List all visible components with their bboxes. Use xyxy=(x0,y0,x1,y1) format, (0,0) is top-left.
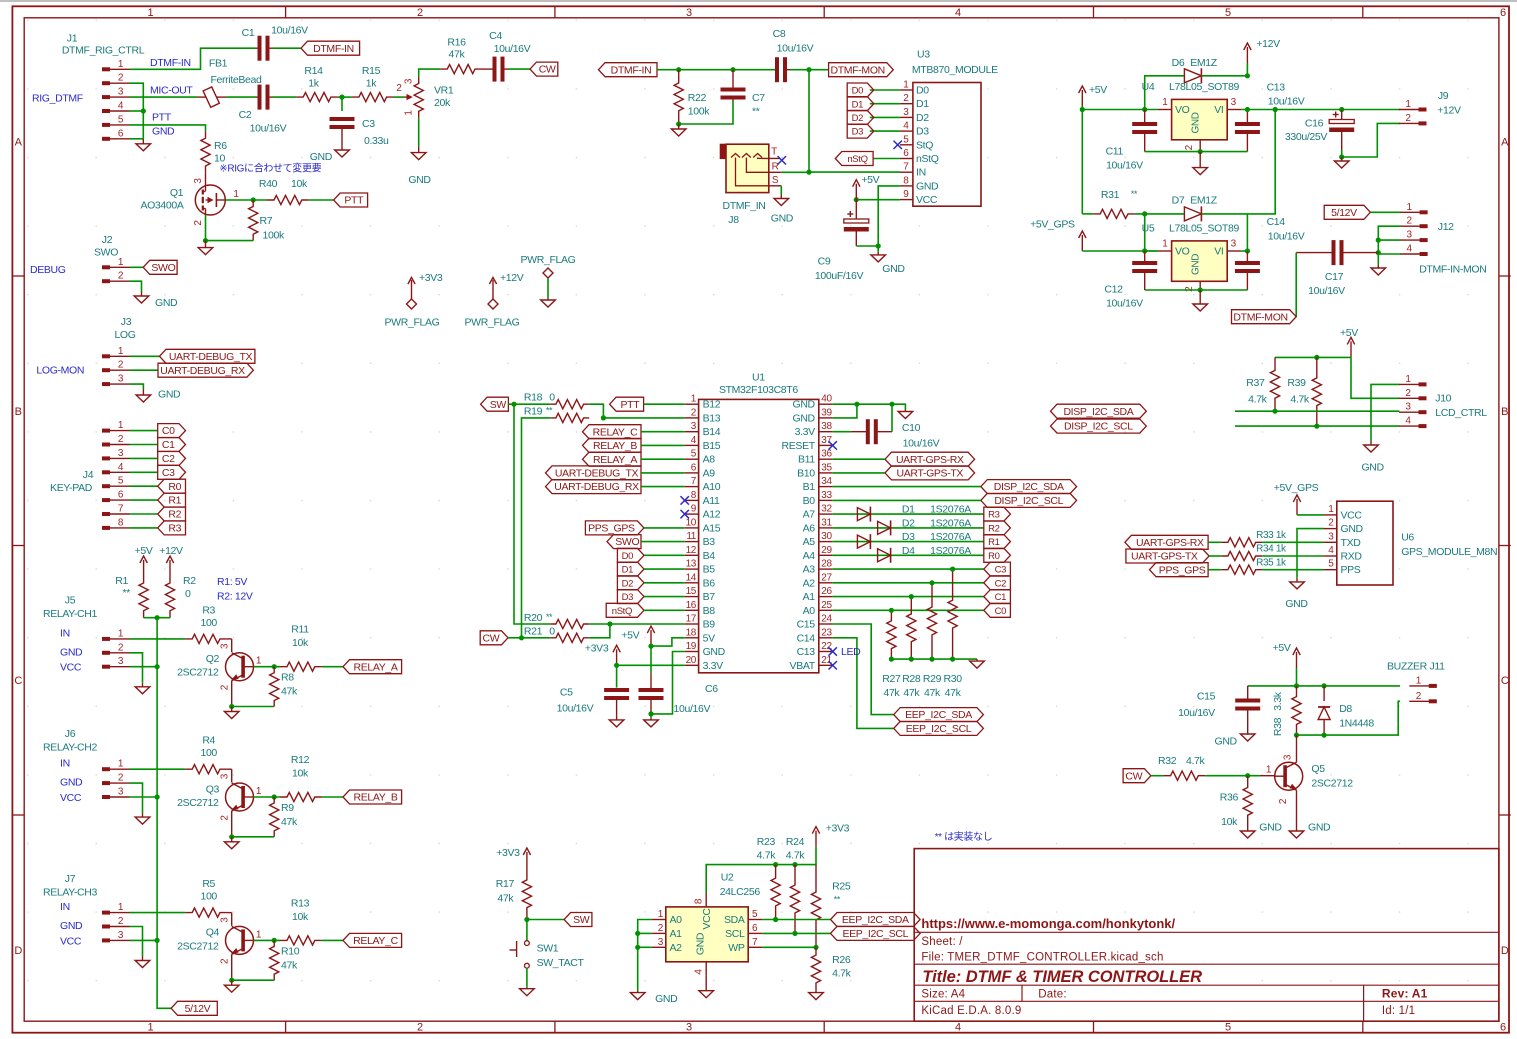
svg-text:2SC2712: 2SC2712 xyxy=(177,667,219,679)
svg-text:C15: C15 xyxy=(797,619,816,631)
wire xyxy=(130,48,256,69)
global label PTT xyxy=(334,193,368,207)
junction xyxy=(648,711,653,716)
svg-text:EEP_I2C_SDA: EEP_I2C_SDA xyxy=(842,914,909,926)
junction xyxy=(1142,107,1147,112)
junction xyxy=(676,67,681,72)
diode D8 1N4448 xyxy=(1318,686,1374,735)
svg-text:3: 3 xyxy=(220,643,231,649)
svg-text:DTMF_IN: DTMF_IN xyxy=(722,200,765,212)
svg-text:8: 8 xyxy=(903,175,909,186)
wire xyxy=(1246,214,1248,251)
svg-text:Size: A4: Size: A4 xyxy=(921,989,965,1001)
resistor R35 xyxy=(1221,557,1287,574)
wire xyxy=(514,404,550,624)
capacitor C1 xyxy=(242,25,309,61)
diode D7 EM1Z xyxy=(1172,195,1218,222)
connector J6 RELAY-CH2 xyxy=(43,728,130,799)
svg-text:+5V: +5V xyxy=(1089,84,1107,96)
svg-text:2: 2 xyxy=(1406,216,1412,227)
svg-text:IN: IN xyxy=(916,167,926,179)
wire xyxy=(206,215,254,241)
svg-text:A7: A7 xyxy=(803,509,816,521)
wire xyxy=(641,444,685,446)
svg-text:Sheet: /: Sheet: / xyxy=(921,936,963,948)
svg-text:R22: R22 xyxy=(688,92,707,104)
svg-text:B: B xyxy=(15,406,22,418)
global label UART-GPS-RX xyxy=(1125,535,1208,549)
svg-text:Date:: Date: xyxy=(1038,989,1067,1001)
global label RELAY_B xyxy=(583,438,642,452)
svg-text:GND: GND xyxy=(310,151,333,163)
svg-text:0: 0 xyxy=(185,588,191,600)
global label PPS_GPS xyxy=(585,521,644,535)
wire xyxy=(130,939,158,941)
svg-text:R38: R38 xyxy=(1272,717,1284,736)
svg-text:R23: R23 xyxy=(757,836,776,848)
svg-text:1N4448: 1N4448 xyxy=(1339,717,1374,729)
connector J1 DTMF_RIG_CTRL xyxy=(62,33,145,141)
svg-text:+12V: +12V xyxy=(500,272,524,284)
global label EEP_I2C_SDA xyxy=(831,913,921,927)
wire xyxy=(644,554,685,556)
svg-text:RXD: RXD xyxy=(1341,551,1363,563)
junction xyxy=(155,615,160,620)
resistor R29 xyxy=(923,583,942,699)
svg-text:VO: VO xyxy=(1175,246,1190,258)
wire GND pin8 xyxy=(878,186,900,252)
junction xyxy=(251,197,256,202)
svg-text:1: 1 xyxy=(118,59,124,70)
svg-text:GND: GND xyxy=(1191,112,1202,133)
wire xyxy=(641,431,685,433)
svg-text:4: 4 xyxy=(955,7,961,19)
svg-text:IN: IN xyxy=(60,758,70,770)
resistor R20 xyxy=(524,612,589,629)
global label C3 xyxy=(158,465,186,479)
svg-text:UART-DEBUG_RX: UART-DEBUG_RX xyxy=(160,365,245,377)
ferrite bead FB1 xyxy=(197,58,262,108)
power +5V xyxy=(1340,327,1358,357)
svg-text:11: 11 xyxy=(686,531,696,542)
ground xyxy=(1240,827,1255,838)
global label RELAY_C xyxy=(583,425,642,439)
global label RELAY_B xyxy=(343,790,402,804)
junction xyxy=(519,635,524,640)
ground xyxy=(1193,290,1208,311)
pwr_flag on GND xyxy=(521,254,576,307)
svg-text:GND: GND xyxy=(408,174,431,186)
wire xyxy=(130,266,144,268)
svg-text:C10: C10 xyxy=(902,422,921,434)
svg-text:A1: A1 xyxy=(670,928,683,940)
global label SWO xyxy=(143,260,177,274)
wire xyxy=(891,658,977,660)
global label SW xyxy=(564,913,592,927)
svg-text:34: 34 xyxy=(821,476,832,487)
svg-text:DEBUG: DEBUG xyxy=(30,264,66,276)
wire xyxy=(1145,151,1248,153)
svg-text:3: 3 xyxy=(1231,97,1237,108)
connector J11 BUZZER xyxy=(1387,661,1445,704)
wire xyxy=(130,444,158,446)
junction xyxy=(889,402,894,407)
junction xyxy=(773,917,778,922)
wire xyxy=(1082,250,1157,252)
svg-text:1: 1 xyxy=(1162,239,1168,250)
power +12V xyxy=(159,545,183,576)
svg-text:SDA: SDA xyxy=(724,914,745,926)
svg-text:9: 9 xyxy=(691,504,697,515)
svg-text:RELAY-CH1: RELAY-CH1 xyxy=(43,608,98,620)
svg-text:B5: B5 xyxy=(703,564,716,576)
svg-text:30: 30 xyxy=(821,531,832,542)
wire xyxy=(1235,410,1400,412)
svg-text:R40: R40 xyxy=(259,178,278,190)
svg-text:CW: CW xyxy=(483,632,500,644)
svg-text:5: 5 xyxy=(752,909,758,920)
connector J2 SWO xyxy=(94,234,130,283)
capacitor C17 xyxy=(1296,240,1378,297)
svg-text:D8: D8 xyxy=(1339,703,1352,715)
svg-text:GND: GND xyxy=(1191,254,1202,275)
resistor R11 xyxy=(280,624,322,672)
wire xyxy=(1082,213,1093,215)
wire xyxy=(418,118,420,146)
resistor R17 xyxy=(496,868,532,920)
resistor R38 xyxy=(1272,686,1301,736)
svg-text:+3V3: +3V3 xyxy=(496,847,520,859)
svg-text:5: 5 xyxy=(1225,1022,1231,1034)
resistor R22 xyxy=(674,70,710,124)
svg-text:R15: R15 xyxy=(362,65,381,77)
junction xyxy=(889,608,894,613)
resistor R31 xyxy=(1093,189,1138,219)
svg-text:R36: R36 xyxy=(1220,792,1239,804)
svg-text:RELAY_C: RELAY_C xyxy=(353,935,398,947)
svg-text:R3: R3 xyxy=(988,510,1000,521)
svg-text:3: 3 xyxy=(118,87,124,98)
svg-text:J12: J12 xyxy=(1438,221,1454,233)
svg-text:J6: J6 xyxy=(65,728,76,740)
global label R2 xyxy=(984,521,1011,535)
svg-text:D3: D3 xyxy=(916,126,929,138)
svg-text:RELAY_A: RELAY_A xyxy=(593,454,637,466)
svg-text:5: 5 xyxy=(903,134,909,145)
svg-text:3: 3 xyxy=(1406,230,1412,241)
wire xyxy=(130,281,142,292)
resistor R15 xyxy=(352,65,394,102)
svg-text:LED: LED xyxy=(841,646,861,658)
svg-text:6: 6 xyxy=(1500,1022,1506,1034)
svg-text:FerriteBead: FerriteBead xyxy=(210,74,262,86)
svg-text:100k: 100k xyxy=(688,106,710,118)
svg-text:100: 100 xyxy=(200,891,217,903)
resistor R32 xyxy=(1158,755,1206,780)
svg-text:PPS_GPS: PPS_GPS xyxy=(588,523,635,535)
svg-text:GND: GND xyxy=(60,646,83,658)
capacitor C9 polarized xyxy=(815,200,869,282)
capacitor C13 xyxy=(1235,81,1305,151)
ground xyxy=(1290,578,1305,589)
svg-text:5: 5 xyxy=(691,449,697,460)
wire xyxy=(508,68,530,70)
wire xyxy=(856,245,878,247)
ground xyxy=(809,991,824,1000)
junction xyxy=(648,644,653,649)
wire xyxy=(273,96,296,98)
svg-text:5: 5 xyxy=(1328,559,1334,570)
svg-text:R19: R19 xyxy=(524,405,543,417)
junction xyxy=(524,917,529,922)
junction xyxy=(155,938,160,943)
svg-text:3.3V: 3.3V xyxy=(703,660,724,672)
wire xyxy=(1209,555,1221,557)
svg-text:1S2076A: 1S2076A xyxy=(930,545,971,557)
svg-text:15: 15 xyxy=(686,586,697,597)
wire xyxy=(130,768,186,770)
ground xyxy=(135,957,150,968)
junction xyxy=(601,415,606,420)
power +3V3 flag xyxy=(385,272,443,328)
svg-text:39: 39 xyxy=(821,407,832,418)
svg-text:SW_TACT: SW_TACT xyxy=(537,957,585,969)
wire xyxy=(1201,110,1275,214)
svg-text:Q5: Q5 xyxy=(1311,763,1325,775)
svg-text:R18: R18 xyxy=(524,392,543,404)
global label R3 xyxy=(984,507,1011,521)
svg-text:R33 1k: R33 1k xyxy=(1256,530,1287,541)
capacitor C4 xyxy=(482,30,531,82)
resistor R33 xyxy=(1221,530,1287,547)
junction xyxy=(229,978,234,983)
wire xyxy=(790,69,829,71)
svg-text:PTT: PTT xyxy=(152,112,172,124)
svg-text:R20: R20 xyxy=(524,612,543,624)
svg-text:3: 3 xyxy=(118,448,124,459)
svg-text:GND: GND xyxy=(1341,523,1364,535)
global label PPS_GPS xyxy=(1150,563,1209,577)
junction xyxy=(1294,733,1299,738)
svg-text:3: 3 xyxy=(686,7,692,19)
wire xyxy=(641,458,685,460)
svg-text:DTMF-MON: DTMF-MON xyxy=(1233,311,1287,323)
svg-text:R1: R1 xyxy=(168,495,181,507)
svg-text:C14: C14 xyxy=(797,632,816,644)
svg-text:1: 1 xyxy=(118,902,124,913)
global label DISP_I2C_SDA xyxy=(1051,404,1147,418)
connector J12 xyxy=(1400,202,1486,275)
svg-text:6: 6 xyxy=(118,128,124,139)
global label UART-DEBUG_TX xyxy=(546,466,642,480)
svg-text:1: 1 xyxy=(1406,202,1412,213)
svg-text:100: 100 xyxy=(200,617,217,629)
svg-text:MTB870_MODULE: MTB870_MODULE xyxy=(912,64,998,76)
wire xyxy=(1235,425,1400,427)
global label D2 xyxy=(617,576,644,590)
svg-text:EM1Z: EM1Z xyxy=(1190,57,1218,69)
svg-text:5: 5 xyxy=(1225,7,1231,19)
svg-text:C2: C2 xyxy=(995,578,1007,589)
svg-text:B15: B15 xyxy=(703,440,721,452)
svg-text:6: 6 xyxy=(691,462,697,473)
svg-text:C0: C0 xyxy=(162,425,175,437)
ground xyxy=(224,707,239,719)
svg-text:D7: D7 xyxy=(1172,195,1185,207)
svg-text:10u/16V: 10u/16V xyxy=(1268,96,1305,108)
svg-text:BUZZER J11: BUZZER J11 xyxy=(1387,661,1445,673)
svg-text:C17: C17 xyxy=(1325,271,1344,283)
no-connect VBAT xyxy=(829,661,837,669)
svg-text:SW: SW xyxy=(490,399,507,411)
svg-text:D1: D1 xyxy=(902,504,915,516)
svg-text:FB1: FB1 xyxy=(209,58,228,70)
svg-text:R17: R17 xyxy=(496,878,515,890)
svg-text:SW1: SW1 xyxy=(537,943,559,955)
svg-text:D1: D1 xyxy=(852,99,864,110)
svg-text:1S2076A: 1S2076A xyxy=(930,517,971,529)
junction xyxy=(676,121,681,126)
svg-text:10k: 10k xyxy=(291,178,308,190)
svg-text:4: 4 xyxy=(1406,244,1412,255)
global label R3 xyxy=(158,521,186,535)
wire IN xyxy=(856,199,900,201)
svg-text:** は実装なし: ** は実装なし xyxy=(935,830,993,843)
power +5V_GPS xyxy=(1030,219,1086,252)
svg-text:R37: R37 xyxy=(1246,377,1265,389)
svg-text:7: 7 xyxy=(118,504,124,515)
svg-text:**: ** xyxy=(752,106,760,118)
svg-text:5/12V: 5/12V xyxy=(185,1003,211,1015)
svg-text:Q4: Q4 xyxy=(206,927,220,939)
junction xyxy=(229,834,234,839)
svg-text:6: 6 xyxy=(118,490,124,501)
wire xyxy=(644,609,685,611)
svg-text:GND: GND xyxy=(1285,598,1308,610)
svg-text:SWO: SWO xyxy=(151,262,175,274)
svg-text:C2: C2 xyxy=(239,109,252,121)
wire xyxy=(833,404,857,418)
global label EEP_I2C_SDA xyxy=(894,708,984,722)
svg-text:VI: VI xyxy=(1214,104,1223,116)
junction xyxy=(272,664,277,669)
wire xyxy=(870,130,900,132)
svg-text:StQ: StQ xyxy=(916,139,933,151)
svg-text:U4: U4 xyxy=(1142,81,1155,93)
wire xyxy=(833,404,906,409)
wire xyxy=(522,418,551,638)
svg-text:GND: GND xyxy=(1259,822,1282,834)
svg-text:R9: R9 xyxy=(281,802,294,814)
svg-text:GND: GND xyxy=(1361,462,1384,474)
capacitor C6 xyxy=(639,673,719,715)
wire xyxy=(650,646,652,673)
svg-text:10u/16V: 10u/16V xyxy=(1178,707,1215,719)
wire xyxy=(1248,685,1400,687)
wire xyxy=(1297,514,1324,516)
junction xyxy=(909,657,914,662)
svg-text:A4: A4 xyxy=(803,550,816,562)
global label D3 xyxy=(617,590,644,604)
transistor Q3 2SC2712 xyxy=(177,773,262,836)
connector J7 RELAY-CH3 xyxy=(43,873,130,942)
wire xyxy=(322,939,343,941)
svg-text:+3V3: +3V3 xyxy=(585,643,609,655)
svg-text:C14: C14 xyxy=(1267,216,1286,228)
svg-text:1: 1 xyxy=(233,189,239,200)
wire xyxy=(130,384,144,389)
ground xyxy=(1193,152,1208,175)
svg-text:2: 2 xyxy=(1184,144,1195,150)
resistor R1 xyxy=(115,575,148,618)
wire xyxy=(1201,63,1247,76)
junction xyxy=(889,657,894,662)
svg-text:31: 31 xyxy=(821,517,832,528)
svg-text:35: 35 xyxy=(821,462,832,473)
ground xyxy=(871,252,886,262)
svg-text:SWO: SWO xyxy=(615,536,639,548)
power +5V xyxy=(135,545,153,576)
svg-text:C15: C15 xyxy=(1197,691,1216,703)
wire xyxy=(130,355,160,357)
svg-text:R30: R30 xyxy=(943,673,962,685)
svg-text:RELAY_C: RELAY_C xyxy=(593,426,638,438)
svg-text:A9: A9 xyxy=(703,467,716,479)
wire xyxy=(833,527,984,529)
svg-text:EEP_I2C_SCL: EEP_I2C_SCL xyxy=(906,723,972,735)
svg-text:4: 4 xyxy=(955,1022,961,1034)
junction xyxy=(1245,73,1250,78)
connector J5 RELAY-CH1 xyxy=(43,595,130,669)
wire xyxy=(644,527,685,529)
svg-text:C11: C11 xyxy=(1106,145,1124,157)
wire xyxy=(644,596,685,598)
svg-text:C12: C12 xyxy=(1104,284,1123,296)
capacitor C11 xyxy=(1106,110,1158,172)
svg-text:18: 18 xyxy=(686,627,697,638)
svg-text:6: 6 xyxy=(903,148,909,159)
svg-text:47k: 47k xyxy=(281,816,298,828)
global label UART-GPS-TX xyxy=(885,466,975,480)
svg-text:B: B xyxy=(1501,406,1508,418)
svg-text:2SC2712: 2SC2712 xyxy=(177,940,219,952)
wire xyxy=(833,486,981,488)
svg-text:MIC-OUT: MIC-OUT xyxy=(150,85,193,97)
svg-text:2: 2 xyxy=(118,773,124,784)
wire xyxy=(651,652,685,714)
svg-text:1: 1 xyxy=(1162,97,1168,108)
svg-text:+5V: +5V xyxy=(861,174,879,186)
wire xyxy=(833,541,984,543)
svg-text:C4: C4 xyxy=(489,30,502,42)
power +5V xyxy=(1079,84,1108,106)
resistor R3 xyxy=(185,604,227,643)
svg-text:nStQ: nStQ xyxy=(612,606,632,617)
svg-text:1: 1 xyxy=(1405,99,1411,110)
global label 5/12V xyxy=(171,1001,217,1015)
svg-text:DTMF-IN: DTMF-IN xyxy=(150,57,191,69)
svg-text:R35 1k: R35 1k xyxy=(1256,557,1287,568)
power +5V xyxy=(1273,642,1301,668)
wire xyxy=(762,919,830,921)
capacitor C16 polarized xyxy=(1285,110,1354,151)
junction xyxy=(813,945,818,950)
svg-text:47k: 47k xyxy=(281,959,298,971)
svg-text:STM32F103C8T6: STM32F103C8T6 xyxy=(719,384,798,396)
svg-text:3: 3 xyxy=(1283,754,1294,760)
junction xyxy=(806,170,811,175)
wire xyxy=(762,946,816,948)
